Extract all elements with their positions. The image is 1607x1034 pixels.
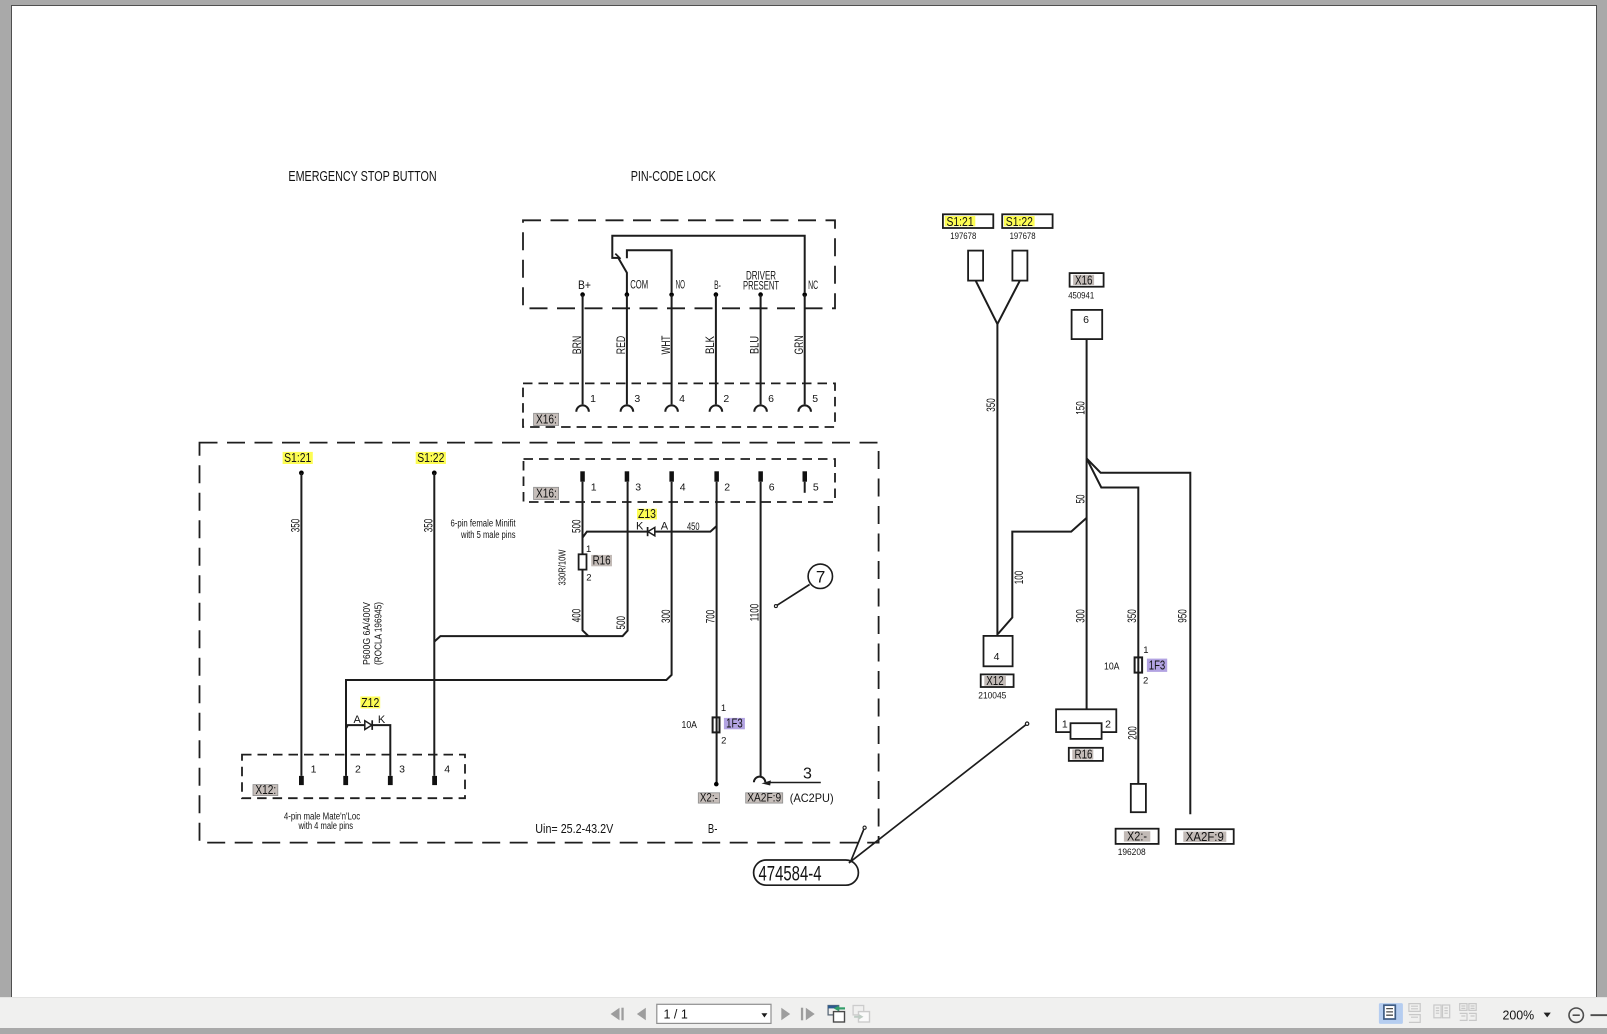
svg-text:300: 300 [1073, 609, 1087, 623]
diode Z12 branch to X12:3 [346, 725, 390, 776]
svg-text:X12:: X12: [255, 783, 276, 797]
zoom out button [1569, 1008, 1583, 1022]
svg-text:4: 4 [994, 651, 1000, 663]
svg-text:1: 1 [1062, 719, 1068, 731]
svg-text:2: 2 [1105, 719, 1111, 731]
node B- [714, 292, 719, 297]
viewer toolbar [0, 997, 1607, 1028]
svg-text:GRN: GRN [792, 336, 806, 355]
svg-text:1: 1 [591, 482, 597, 494]
wire branch 950 to XA2F:9 [1087, 458, 1191, 814]
svg-text:(ROCLA 196945): (ROCLA 196945) [373, 602, 384, 665]
terminal X2:- [1131, 784, 1146, 812]
svg-text:NO: NO [676, 277, 685, 291]
svg-text:350: 350 [1125, 609, 1139, 623]
svg-text:200%: 200% [1503, 1009, 1535, 1023]
svg-text:5: 5 [812, 393, 818, 405]
connector X16 socket side dashed box [523, 383, 835, 427]
svg-text:330R/10W: 330R/10W [558, 549, 569, 585]
svg-text:BLK: BLK [703, 336, 717, 354]
svg-text:R16: R16 [1075, 747, 1093, 761]
svg-text:PIN-CODE LOCK: PIN-CODE LOCK [631, 169, 716, 185]
svg-text:1 / 1: 1 / 1 [664, 1007, 688, 1021]
X16 socket pin 4 [665, 405, 678, 411]
wire junction S1:22 / R16 / X16:3 [434, 482, 627, 642]
node COM [625, 292, 630, 297]
svg-text:Z12: Z12 [361, 696, 379, 710]
svg-text:100: 100 [1012, 570, 1026, 584]
wire Y-split to X12 [976, 281, 1020, 325]
wire WHT NO to X16:4 [671, 295, 673, 405]
label S1:22 (harness) [1002, 214, 1052, 228]
wire BLK B- to X16:2 [715, 295, 717, 405]
svg-text:X12: X12 [986, 674, 1004, 688]
X16 socket pin 1 [576, 405, 589, 411]
svg-text:X2:-: X2:- [1127, 830, 1147, 844]
wire X16:4 to X12:2 [346, 482, 672, 776]
svg-text:WHT: WHT [659, 336, 673, 355]
svg-text:2: 2 [355, 764, 361, 776]
svg-text:with 5 male pins: with 5 male pins [460, 530, 515, 541]
label X2:- [698, 793, 719, 803]
label X16 (harness) [1070, 273, 1104, 287]
svg-text:2: 2 [586, 573, 591, 584]
wire X16:1 to R16 [582, 482, 584, 555]
svg-text:10A: 10A [682, 719, 698, 731]
wire S1:21 to X12:1 [300, 473, 302, 776]
X16 pin 1 [580, 471, 585, 481]
X12 pin 2 [343, 776, 348, 785]
svg-text:EMERGENCY STOP BUTTON: EMERGENCY STOP BUTTON [288, 169, 436, 185]
svg-text:S1:22: S1:22 [1006, 215, 1033, 229]
wire X16:6 to XA2F:9 [760, 482, 762, 777]
connector X16 pin side label [534, 487, 559, 499]
node NC [802, 292, 807, 297]
svg-text:6-pin female Minifit: 6-pin female Minifit [451, 519, 516, 530]
next page button [781, 1008, 790, 1021]
terminal S1:22 [1012, 251, 1027, 281]
svg-text:S1:22: S1:22 [417, 451, 444, 465]
label S1:21 [283, 452, 313, 464]
svg-text:6: 6 [1083, 314, 1089, 326]
first page button [611, 1008, 620, 1021]
callout leader long [849, 724, 1027, 863]
svg-text:1: 1 [586, 544, 591, 555]
connector X12 (harness, 4) [984, 636, 1013, 666]
diode Z13 [648, 527, 655, 535]
wire GRN NC to X16:5 [804, 295, 806, 405]
callout leader short [851, 828, 864, 861]
svg-text:1: 1 [1143, 645, 1148, 656]
svg-text:1: 1 [590, 393, 596, 405]
svg-text:S1:21: S1:21 [947, 215, 974, 229]
svg-text:K: K [636, 520, 644, 532]
svg-text:6: 6 [768, 393, 774, 405]
svg-text:S1:21: S1:21 [284, 451, 311, 465]
X12 pin 3 [388, 776, 393, 785]
svg-text:Z13: Z13 [638, 507, 656, 521]
fuse 1F3 [713, 717, 720, 732]
note P600G cable [362, 602, 373, 665]
page number box [657, 1004, 771, 1023]
svg-text:A: A [354, 714, 362, 726]
terminal arc XA2F:9 [754, 777, 765, 783]
svg-text:COM: COM [630, 277, 648, 291]
node B+ [580, 292, 585, 297]
svg-text:474584-4: 474584-4 [759, 863, 822, 886]
node DRIVER PRESENT [758, 292, 763, 297]
terminal S1:21 [968, 251, 983, 281]
pin-code lock dashed enclosure [523, 220, 835, 308]
single page layout (active) [1379, 1003, 1403, 1024]
emergency stop button harness dashed enclosure [200, 443, 879, 843]
svg-text:RED: RED [614, 336, 628, 355]
X16 pin 6 [758, 471, 763, 481]
X16 socket pin 5 [798, 405, 811, 411]
svg-text:196208: 196208 [1118, 847, 1146, 857]
svg-text:B+: B+ [578, 278, 591, 292]
svg-text:7: 7 [816, 567, 825, 586]
X12 pin 4 [432, 776, 437, 785]
svg-text:50: 50 [1073, 494, 1087, 503]
label S1:22 [416, 452, 446, 464]
svg-text:3: 3 [803, 766, 812, 783]
svg-text:197678: 197678 [1010, 231, 1036, 241]
svg-text:1F3: 1F3 [726, 716, 743, 730]
drawing number balloon 474584-4 [754, 860, 859, 885]
resistor R16 (harness) [1056, 709, 1116, 732]
switch S (pin-code lock internal contact) NC branch [612, 236, 804, 293]
svg-text:350: 350 [288, 518, 302, 532]
callout circle 7 [808, 564, 832, 588]
X12 pin 1 [299, 776, 304, 785]
svg-text:200: 200 [1125, 726, 1139, 740]
label R16 (harness) [1069, 748, 1103, 761]
resistor R16 [579, 554, 587, 569]
connector X12 label [253, 785, 278, 796]
X16 pin 4 [669, 471, 674, 481]
switch NO branch [627, 250, 672, 292]
switch blade COM [618, 258, 627, 295]
svg-text:NC: NC [808, 278, 818, 292]
svg-text:500: 500 [569, 519, 583, 533]
svg-text:350: 350 [421, 518, 435, 532]
svg-text:400: 400 [569, 608, 583, 622]
svg-text:2: 2 [724, 482, 730, 494]
zoom slider track [1591, 1014, 1607, 1016]
wire X16:2 to X2:- with fuse [716, 482, 718, 784]
svg-text:X16:: X16: [536, 412, 557, 426]
continuous facing layout icon [1460, 1004, 1477, 1021]
svg-text:(AC2PU): (AC2PU) [790, 791, 834, 805]
wire BRN B+ to X16:1 [582, 295, 584, 405]
previous page button [637, 1008, 646, 1021]
node S1:21 [299, 471, 304, 476]
svg-text:with 4 male pins: with 4 male pins [298, 821, 353, 832]
X16 socket pin 2 [710, 405, 723, 411]
svg-text:4: 4 [679, 393, 685, 405]
connector X16 (harness, 6) [1072, 310, 1103, 339]
svg-text:B-: B- [714, 278, 721, 292]
label R16 [591, 555, 612, 566]
svg-text:X2:-: X2:- [700, 791, 718, 805]
svg-text:6: 6 [769, 482, 775, 494]
svg-text:700: 700 [704, 609, 718, 623]
wire Z13 branch 450 [583, 526, 717, 538]
node NO [669, 292, 674, 297]
connector X16 label [534, 413, 559, 425]
X16 pin 3 [625, 471, 630, 481]
svg-text:X16: X16 [1075, 274, 1093, 288]
switch contact tick [615, 254, 620, 259]
X16 socket pin 6 [754, 405, 767, 411]
wire branch 350 to X2:- [1087, 458, 1139, 784]
svg-text:1: 1 [311, 764, 317, 776]
svg-text:210045: 210045 [978, 691, 1006, 701]
svg-text:197678: 197678 [950, 231, 976, 241]
svg-text:500: 500 [614, 616, 628, 630]
svg-text:B-: B- [708, 822, 718, 836]
diode Z12 [365, 721, 372, 730]
X16 socket pin 3 [621, 405, 634, 411]
svg-text:4: 4 [680, 482, 686, 494]
svg-text:R16: R16 [593, 554, 611, 568]
svg-text:PRESENT: PRESENT [743, 278, 779, 292]
node X2:- [714, 782, 719, 787]
svg-text:4: 4 [444, 764, 450, 776]
wire R16 to junction [583, 570, 589, 637]
svg-text:1: 1 [721, 703, 726, 714]
svg-text:K: K [378, 714, 386, 726]
svg-text:A: A [661, 520, 669, 532]
svg-text:3: 3 [399, 764, 405, 776]
X16 pin 2 [714, 471, 719, 481]
svg-text:350: 350 [984, 398, 998, 412]
svg-text:XA2F:9: XA2F:9 [1186, 830, 1224, 844]
wire RED COM to X16:3 [626, 295, 628, 405]
previous view icon [828, 1006, 839, 1015]
label S1:21 (harness) [943, 214, 993, 228]
svg-text:Uin= 25.2-43.2V: Uin= 25.2-43.2V [535, 822, 614, 836]
svg-text:1100: 1100 [748, 604, 762, 622]
continuous layout icon [1409, 1004, 1420, 1023]
svg-text:3: 3 [634, 393, 640, 405]
wire branch 100 to X12 [998, 518, 1087, 634]
wire BLU DRIVER PRESENT to X16:6 [760, 295, 762, 405]
svg-text:BLU: BLU [748, 336, 762, 354]
label XA2F:9 [746, 793, 783, 803]
label X2:- (harness) [1116, 829, 1159, 844]
svg-text:2: 2 [1143, 675, 1148, 686]
svg-text:1F3: 1F3 [1149, 659, 1166, 673]
svg-text:950: 950 [1176, 609, 1190, 623]
svg-text:XA2F:9: XA2F:9 [747, 791, 781, 805]
svg-text:2: 2 [723, 393, 729, 405]
wire S1:22 to X12:4 [433, 473, 435, 776]
svg-text:BRN: BRN [570, 336, 584, 355]
svg-text:150: 150 [1074, 401, 1088, 415]
node S1:22 [432, 471, 437, 476]
svg-text:2: 2 [721, 736, 726, 747]
next view icon (disabled) [853, 1006, 864, 1015]
svg-text:300: 300 [659, 609, 673, 623]
svg-text:P600G 6A/400V: P600G 6A/400V [362, 602, 373, 665]
X16 pin 5 with stub [803, 471, 808, 481]
fuse 1F3 (harness) [1135, 657, 1143, 672]
svg-text:450: 450 [687, 521, 700, 533]
connector X12 dashed box [242, 755, 465, 799]
svg-text:X16:: X16: [536, 486, 557, 500]
last page button [801, 1008, 803, 1021]
label X12 (harness) [981, 674, 1014, 687]
arrow 3 (AC2PU) [769, 782, 821, 784]
svg-text:3: 3 [635, 482, 641, 494]
connector X16 pin side dashed box [524, 459, 836, 502]
svg-text:450941: 450941 [1068, 290, 1094, 300]
facing layout icon [1434, 1005, 1450, 1018]
svg-text:10A: 10A [1104, 660, 1120, 672]
wire X16 down [1086, 339, 1088, 709]
svg-text:5: 5 [813, 482, 819, 494]
label XA2F:9 (harness) [1176, 829, 1234, 844]
